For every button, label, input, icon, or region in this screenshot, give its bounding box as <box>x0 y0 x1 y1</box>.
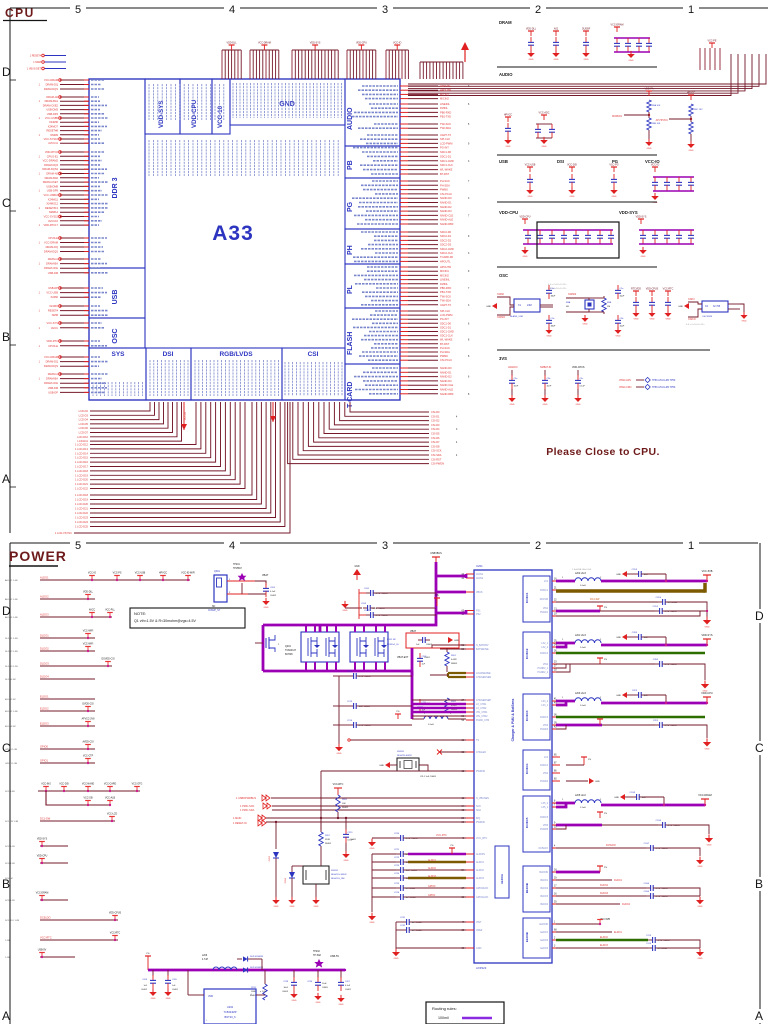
capacitor tap VCC-WIFI <box>87 647 89 652</box>
svg-text:X24MI: X24MI <box>497 293 504 296</box>
wire SDA <box>272 809 466 811</box>
divider AUDIO <box>497 154 657 156</box>
capacitor C203 top 4.7uF <box>345 607 362 609</box>
wire U202 right pin <box>256 994 265 996</box>
svg-text:DLDO3: DLDO3 <box>600 892 609 895</box>
svg-text:BLDOB: BLDOB <box>525 883 529 893</box>
capacitor tap VCC-LCD <box>111 817 113 822</box>
ground SW201 <box>312 900 320 904</box>
svg-text:0.1uF: 0.1uF <box>270 591 276 593</box>
svg-text:ALDO3: ALDO3 <box>40 613 49 617</box>
sheet border CPU - top ruler <box>10 7 70 9</box>
svg-text:NMI#9: NMI#9 <box>50 133 58 137</box>
svg-text:VCC-SYS10: VCC-SYS10 <box>44 137 59 141</box>
wire left pin row DQ25 <box>60 194 89 196</box>
svg-text:B: B <box>755 877 763 891</box>
pmic sub box DC/DC4 <box>523 750 550 790</box>
svg-text:LCD-D5: LCD-D5 <box>79 422 89 426</box>
svg-text:1 LCD-D18: 1 LCD-D18 <box>75 469 89 473</box>
svg-text:0R: 0R <box>566 306 569 308</box>
svg-text:GND: GND <box>583 323 588 325</box>
pin name texture below top boxes row2 <box>148 140 150 176</box>
capacitor X2 bottom <box>617 315 619 320</box>
capacitor C224 ALDO3 <box>372 877 396 879</box>
svg-text:ALDO2: ALDO2 <box>428 867 437 870</box>
wire left pin row DQ10 <box>60 125 89 127</box>
svg-text:L203 L3x3: L203 L3x3 <box>575 693 586 695</box>
ground dc5ldo <box>696 860 704 864</box>
svg-text:VCC-IO: VCC-IO <box>185 412 187 420</box>
svg-text:2: 2 <box>535 4 541 16</box>
svg-text:LCD-D4: LCD-D4 <box>79 418 89 422</box>
svg-text:SDC1-CLK: SDC1-CLK <box>440 334 453 338</box>
capacitor tap USB-5V <box>41 953 43 958</box>
svg-text:510R: 510R <box>325 839 330 841</box>
svg-text:DC1 1-3B: DC1 1-3B <box>5 791 15 793</box>
svg-text:LX5_2: LX5_2 <box>541 803 548 805</box>
svg-text:Charger & PMU & BatSens: Charger & PMU & BatSens <box>511 699 515 742</box>
svg-text:VDD: VDD <box>208 995 213 998</box>
svg-text:0.1uF: 0.1uF <box>580 386 586 388</box>
wire left pin row VREF39 <box>60 267 89 269</box>
pmic pin 55 VIN_CH01 <box>466 711 474 713</box>
svg-text:C204: C204 <box>270 587 276 589</box>
wire right pin row 61 <box>400 359 408 361</box>
svg-text:GPIO1: GPIO1 <box>428 894 436 897</box>
svg-text:LINEINL: LINEINL <box>440 102 450 106</box>
power flag GND arrow above chip <box>461 42 469 50</box>
svg-text:1 LCD-D25: 1 LCD-D25 <box>75 525 89 529</box>
wire right pin row 67 <box>400 389 408 391</box>
ground 3VS 2 <box>541 398 549 402</box>
wire SCK <box>272 805 466 807</box>
svg-text:VCC-IO: VCC-IO <box>88 573 96 575</box>
capacitor tap VCC-ALB <box>109 801 111 806</box>
svg-text:AUDIO: AUDIO <box>347 107 354 130</box>
wire left pin row VREF37 <box>60 258 89 260</box>
capacitor tap AVCC <box>91 613 93 618</box>
svg-text:DRAM-DQS: DRAM-DQS <box>44 250 58 254</box>
wire bundle top pins VDD-CPU <box>346 50 348 79</box>
wire right pin row 21 <box>400 184 408 186</box>
svg-text:CSI-D1: CSI-D1 <box>431 414 440 418</box>
svg-text:GND: GND <box>570 196 575 198</box>
wire left pin row DQ3 <box>60 96 89 98</box>
capacitor C201 input <box>359 592 366 594</box>
svg-text:WL-WAKE: WL-WAKE <box>440 338 453 342</box>
svg-text:GND: GND <box>614 797 619 799</box>
ground dcdc1 out <box>703 620 711 625</box>
pmic pin 12 PWRON <box>466 770 474 772</box>
power flag VDD-CPU <box>360 45 362 50</box>
svg-text:GND: GND <box>379 765 384 767</box>
ground DRAM rail <box>627 54 635 58</box>
svg-text:DLDO2: DLDO2 <box>600 884 609 887</box>
svg-text:0.1uF: 0.1uF <box>345 985 351 987</box>
svg-text:Routing rules:: Routing rules: <box>432 1006 457 1011</box>
svg-text:GND: GND <box>454 640 459 642</box>
wire N_VBUSEN <box>271 797 466 799</box>
svg-text:SDA: SDA <box>476 809 481 812</box>
connector J201 battery <box>214 575 227 602</box>
svg-text:VBAT-EXT: VBAT-EXT <box>397 656 409 659</box>
ground tap dcdc5 <box>620 794 625 800</box>
svg-text:DRAM-DQS: DRAM-DQS <box>44 87 58 91</box>
svg-text:1 LCD-D21: 1 LCD-D21 <box>75 507 89 511</box>
svg-text:DRAM-A: DRAM-A <box>48 372 59 376</box>
svg-text:CPUS-E: CPUS-E <box>48 236 58 240</box>
svg-text:GPIO0LDO: GPIO0LDO <box>476 887 488 890</box>
svg-text:VDD-RTC17: VDD-RTC17 <box>43 223 58 227</box>
svg-text:PL: PL <box>347 284 354 294</box>
capacitor tap VCC-NAND <box>87 787 89 792</box>
svg-text:1 LCD-D13: 1 LCD-D13 <box>75 447 89 451</box>
svg-text:NMI#14: NMI#14 <box>49 210 59 214</box>
capacitor C207 out <box>340 970 342 978</box>
capacitor C233 10uF <box>627 573 634 575</box>
wire purple FB dcdc5 <box>552 824 560 826</box>
svg-text:X32KI: X32KI <box>688 298 695 301</box>
wire right pin row 55 <box>400 335 408 337</box>
capacitor C239b 4p7 <box>655 724 660 726</box>
svg-text:NAND-CLE: NAND-CLE <box>440 213 454 217</box>
svg-text:X24MO: X24MO <box>49 304 58 308</box>
svg-text:1 PMIC-SCK: 1 PMIC-SCK <box>240 805 255 808</box>
resistor divider AUDIO right 2 <box>690 95 692 100</box>
capacitor tap VCC-WIFI <box>87 634 89 639</box>
svg-text:1 LCD-D18: 1 LCD-D18 <box>75 493 89 497</box>
ground 3VS 1 <box>508 398 516 402</box>
svg-text:GND: GND <box>339 1004 344 1006</box>
pin name texture above bottom edge SYS <box>92 382 94 396</box>
ground dcdc5 out <box>705 838 713 843</box>
capacitor C225 GPIO0 <box>372 887 396 889</box>
svg-text:C219: C219 <box>348 832 354 834</box>
svg-text:Q201: Q201 <box>285 645 292 648</box>
svg-text:GND: GND <box>354 566 359 568</box>
wire left pin row DQ28 <box>60 207 89 209</box>
wire right pin row 8 <box>400 123 408 125</box>
svg-text:1.0uH: 1.0uH <box>428 724 434 726</box>
ground VDD-CPU rail <box>521 250 529 254</box>
wire right pin row 28 <box>400 214 408 216</box>
svg-text:LX2_1: LX2_1 <box>541 643 548 645</box>
wire DC1 sub row <box>46 791 110 805</box>
chip section box VDD-SYS <box>145 79 180 134</box>
svg-text:GND: GND <box>629 60 634 62</box>
svg-text:TWI-SCK: TWI-SCK <box>440 122 451 126</box>
svg-text:DFN2x2_SL: DFN2x2_SL <box>387 644 400 646</box>
svg-text:NAND-CLE: NAND-CLE <box>440 383 454 387</box>
svg-text:GND: GND <box>370 848 375 850</box>
switch SW201 power key <box>303 866 329 884</box>
transistor Q201 small <box>255 642 263 644</box>
wire right pin row 3 <box>400 98 408 100</box>
svg-text:VIN_CH02: VIN_CH02 <box>476 715 488 718</box>
svg-text:VCC-CTP: VCC-CTP <box>83 756 94 758</box>
svg-text:VCC-DRAM: VCC-DRAM <box>698 794 711 797</box>
pmic pin 54 ALDO2 <box>466 869 474 871</box>
wire left pin row DQ22 <box>60 181 89 183</box>
svg-text:1 LCD-D16: 1 LCD-D16 <box>75 460 89 464</box>
svg-text:HPVCC: HPVCC <box>504 114 513 117</box>
svg-text:DC1SW: DC1SW <box>540 599 549 601</box>
wire right pin row 48 <box>400 304 408 306</box>
svg-text:C0402: C0402 <box>350 839 357 841</box>
chip section box RGB/LVDS <box>191 348 282 400</box>
svg-text:NAND-RB0: NAND-RB0 <box>440 392 454 396</box>
svg-text:NAND-ALE: NAND-ALE <box>440 388 453 392</box>
wire right pin row 9 <box>400 127 408 129</box>
svg-text:GND: GND <box>337 753 342 755</box>
svg-text:ALDO2: ALDO2 <box>476 869 485 872</box>
svg-text:ALDOIN: ALDOIN <box>476 853 485 856</box>
pmic pin 15 PS2 <box>466 613 474 615</box>
svg-text:LINEINL: LINEINL <box>440 278 450 282</box>
svg-text:3: 3 <box>382 4 388 16</box>
svg-text:10pF: 10pF <box>620 296 625 298</box>
power flag PS bldo <box>599 866 601 872</box>
svg-text:10uF: 10uF <box>322 983 327 985</box>
capacitor rail DRAM VCC-DRAM group <box>616 27 618 32</box>
wire left pin row DQ6 <box>60 109 89 111</box>
svg-text:VDD-CPU: VDD-CPU <box>520 216 531 219</box>
svg-text:GND: GND <box>370 922 375 924</box>
svg-text:SDC1-D0: SDC1-D0 <box>440 321 452 325</box>
svg-text:RGB/LVDS: RGB/LVDS <box>219 351 253 358</box>
wire left pin row DRAM35 <box>60 246 89 248</box>
wire trio with blue nets top-left (JTAG) <box>44 55 66 57</box>
svg-text:1 RESET-IN: 1 RESET-IN <box>233 822 247 825</box>
svg-text:DC1SW 1-3B: DC1SW 1-3B <box>5 821 19 823</box>
inductor L205 <box>575 800 601 803</box>
wire right pin row 68 <box>400 393 408 395</box>
svg-text:U201: U201 <box>476 564 483 568</box>
svg-text:A02: A02 <box>554 28 559 31</box>
wire right pin row 59 <box>400 351 408 353</box>
svg-text:X24MI6: X24MI6 <box>49 120 58 124</box>
svg-text:18pF: 18pF <box>551 296 556 298</box>
svg-text:DCDC3: DCDC3 <box>540 717 549 719</box>
svg-text:1 USBDPWRBUS: 1 USBDPWRBUS <box>236 797 256 800</box>
svg-text:VCC-SYS: VCC-SYS <box>46 321 58 325</box>
capacitor tap DOVDD-CSI <box>107 662 109 667</box>
svg-text:VCC-DSI: VCC-DSI <box>59 784 69 786</box>
svg-text:DRAM-CKE: DRAM-CKE <box>44 381 58 385</box>
svg-text:VDD-CPU: VDD-CPU <box>499 210 518 215</box>
svg-text:1M: 1M <box>607 306 610 308</box>
wire U202 left pin <box>188 994 204 996</box>
capacitor C246 eldo3 <box>648 947 653 949</box>
capacitor tap VCC-CTP <box>87 759 89 764</box>
note box Q1 <box>130 608 245 628</box>
svg-text:GND: GND <box>528 196 533 198</box>
svg-text:GND: GND <box>343 610 348 612</box>
svg-text:X24MO: X24MO <box>497 316 505 319</box>
svg-text:USB-DM3: USB-DM3 <box>46 108 58 112</box>
dc5ldo row <box>552 847 560 849</box>
svg-text:VDD-SYS: VDD-SYS <box>619 210 638 215</box>
wire left pin row SYS57 <box>60 387 89 389</box>
pmic pin 56 VIN_CH02 <box>466 715 474 717</box>
svg-text:AFVCC-2V8: AFVCC-2V8 <box>82 718 96 721</box>
wire left pin row VCC47 <box>60 322 89 324</box>
svg-text:DSI: DSI <box>163 351 174 358</box>
capacitor C204 <box>265 583 267 588</box>
svg-text:1.5uH: 1.5uH <box>580 807 586 809</box>
capacitor tap VCC-INS <box>45 787 47 792</box>
svg-text:TP202: TP202 <box>313 951 320 953</box>
svg-text:VCC-IO: VCC-IO <box>393 42 402 45</box>
svg-text:NAND-D1: NAND-D1 <box>440 201 452 205</box>
svg-text:C2J3: C2J3 <box>646 935 652 937</box>
svg-text:DLDO1 1-3B: DLDO1 1-3B <box>5 638 18 640</box>
wire left pin row OSC49 <box>60 340 89 342</box>
svg-text:AVCC: AVCC <box>51 326 58 330</box>
svg-text:A33: A33 <box>212 222 254 245</box>
wire right pin row 40 <box>400 270 408 272</box>
svg-text:R201: R201 <box>451 655 457 657</box>
svg-text:B: B <box>2 330 10 344</box>
capacitor C214 <box>349 724 354 726</box>
wire left pin row DQ17 <box>60 160 89 162</box>
ALDO caps column <box>371 854 373 912</box>
capacitor C208 u202 <box>152 970 154 976</box>
wire right pin row 11 <box>400 138 408 140</box>
wire left pin row DQ11 <box>60 130 89 132</box>
svg-text:VDD-RTC: VDD-RTC <box>46 339 58 343</box>
svg-text:GPIO0: GPIO0 <box>428 885 436 888</box>
svg-text:AVDD-CSI: AVDD-CSI <box>83 741 94 744</box>
svg-text:GND: GND <box>698 906 703 908</box>
svg-text:C225: C225 <box>394 883 400 885</box>
wire left pin row DQ14 <box>60 142 89 144</box>
svg-text:R9A: R9A <box>566 301 571 304</box>
svg-text:DRAM-CKE7: DRAM-CKE7 <box>43 180 59 184</box>
svg-text:1 LCD-D12: 1 LCD-D12 <box>75 443 89 447</box>
ground tap dcdc3 <box>622 692 627 698</box>
wire right pin row 13 <box>400 147 408 149</box>
svg-text:GND: GND <box>166 998 171 1000</box>
wire left pin row DQ19 <box>60 168 89 170</box>
svg-text:VDD-CPUS: VDD-CPUS <box>646 288 659 291</box>
svg-text:C2H4: C2H4 <box>644 891 650 893</box>
svg-text:R0402: R0402 <box>342 807 349 809</box>
svg-text:BLDO4: BLDO4 <box>540 904 548 906</box>
transistor pack Q1B dual MOSFET <box>350 632 388 662</box>
pmic pin 45 ACIN2 <box>466 577 474 579</box>
svg-text:4.7uH: 4.7uH <box>202 959 208 961</box>
svg-text:0.03R: 0.03R <box>451 659 457 661</box>
svg-text:1 LCD-D23: 1 LCD-D23 <box>75 516 89 520</box>
wire purple dcdc5 <box>601 804 705 807</box>
svg-text:TPVBAT: TPVBAT <box>233 567 242 570</box>
svg-text:CSI-SCK: CSI-SCK <box>431 449 442 453</box>
svg-text:GND: GND <box>705 627 710 629</box>
svg-text:BLDO1: BLDO1 <box>540 880 548 882</box>
wire left pin row DRAM33 <box>60 237 89 239</box>
svg-text:LCD-D6: LCD-D6 <box>79 426 89 430</box>
svg-text:1 LCD-D19: 1 LCD-D19 <box>75 473 89 477</box>
svg-text:CSI-PCLK: CSI-PCLK <box>440 358 452 362</box>
svg-text:TP-5A8: TP-5A8 <box>313 954 322 957</box>
pmic pin 37 GPIO0LDO <box>466 887 474 889</box>
divider OSC <box>497 349 710 351</box>
svg-text:VBAT: VBAT <box>262 574 269 577</box>
svg-text:SDC1-D1: SDC1-D1 <box>440 154 452 158</box>
capacitor tap AVDD-CSI <box>87 745 89 750</box>
capacitor tap VCC-DRAM <box>41 896 43 901</box>
svg-text:C2D5: C2D5 <box>653 606 659 608</box>
svg-text:DLDO1: DLDO1 <box>614 879 623 882</box>
ground X2 left <box>684 303 689 309</box>
svg-text:TS: TS <box>476 739 479 742</box>
svg-text:L206: L206 <box>202 955 208 957</box>
pmic pin 51 N_BATDRV <box>466 644 474 646</box>
svg-text:DC5LDO: DC5LDO <box>539 848 549 850</box>
svg-text:PB1-TXD: PB1-TXD <box>440 290 451 294</box>
svg-text:GND: GND <box>678 306 683 308</box>
svg-text:PH-SCK: PH-SCK <box>440 346 450 350</box>
svg-text:ELDO3: ELDO3 <box>540 948 548 950</box>
wire bundle top pins VDD-SYS <box>291 50 293 79</box>
svg-text:VCC-PG: VCC-PG <box>609 164 618 167</box>
capacitor C234 NC <box>658 601 663 603</box>
svg-text:VBUS: VBUS <box>476 591 483 594</box>
wire right pin row 15 <box>400 155 408 157</box>
power flag drop VCC-IO in fan <box>183 402 185 430</box>
diode D204 <box>291 868 293 872</box>
svg-text:VCC-RTC: VCC-RTC <box>110 933 121 935</box>
capacitor C235 4p7 <box>655 610 660 612</box>
capacitor cluster AUDIO HPVCC <box>507 117 509 122</box>
svg-text:1 LCD-D22: 1 LCD-D22 <box>75 487 89 491</box>
svg-text:BT-RST: BT-RST <box>440 172 450 176</box>
svg-text:PGND2_2: PGND2_2 <box>538 672 549 674</box>
ground C238 <box>290 994 298 998</box>
svg-text:C2F5: C2F5 <box>653 720 659 722</box>
svg-text:SCK: SCK <box>476 805 481 808</box>
capacitor cluster DRAM C2 <box>555 31 557 36</box>
svg-text:1 LCD-VSYNC: 1 LCD-VSYNC <box>55 531 72 535</box>
svg-text:VPAD-LRN: VPAD-LRN <box>619 379 631 382</box>
svg-text:SUP-4200RM: SUP-4200RM <box>250 967 263 969</box>
svg-text:A: A <box>755 1009 763 1023</box>
wire right pin row 0 <box>400 85 408 87</box>
capacitor cluster VCC-USB <box>529 167 531 172</box>
svg-text:CSI-D8: CSI-D8 <box>431 444 440 448</box>
chip section box CSI <box>282 348 345 400</box>
svg-text:GPIO1 1-3B: GPIO1 1-3B <box>5 763 17 765</box>
capacitor tap VCC-IO <box>91 576 93 581</box>
svg-text:5: 5 <box>75 4 81 16</box>
row letters POWER right <box>754 609 767 623</box>
svg-text:SYS: SYS <box>111 351 125 358</box>
svg-text:TCARD-D0: TCARD-D0 <box>440 255 454 259</box>
capacitor cluster VCC-PG <box>613 167 615 172</box>
svg-text:VDD-RTC0: VDD-RTC0 <box>45 150 59 154</box>
ground AUDIO VCC-ADC <box>540 140 548 144</box>
svg-text:LCD-D11: LCD-D11 <box>77 439 88 443</box>
wire left pin row DQ12 <box>60 134 89 136</box>
svg-text:PGND_CH0: PGND_CH0 <box>476 719 490 722</box>
wire fan group DSI <box>90 402 150 411</box>
svg-text:CON2P_SY: CON2P_SY <box>208 610 221 612</box>
svg-text:L202 L3x3: L202 L3x3 <box>575 573 586 575</box>
svg-text:ELDO2: ELDO2 <box>40 707 49 711</box>
pmic pin 58 ALDO3 <box>466 877 474 879</box>
power flag PS dcdc3 <box>599 719 601 725</box>
